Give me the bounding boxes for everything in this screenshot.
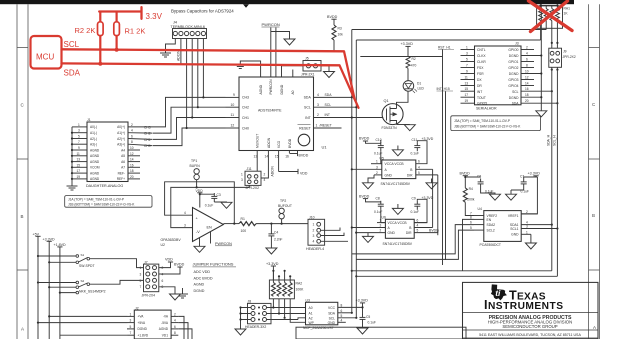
svg-text:20: 20 — [525, 99, 529, 103]
svg-text:INT_H15: INT_H15 — [437, 87, 450, 91]
red wire SCL — [62, 49, 355, 99]
svg-text:VDD: VDD — [196, 189, 204, 193]
svg-text:TP1: TP1 — [191, 159, 197, 163]
svg-text:15: 15 — [275, 155, 279, 159]
svg-text:VCC: VCC — [328, 306, 336, 310]
power arrow (Q1 gnd) — [404, 125, 415, 131]
svg-text:8: 8 — [174, 331, 176, 335]
svg-text:AGND: AGND — [259, 84, 263, 94]
wire DGND bus (J3) — [540, 4, 542, 110]
svg-text:4: 4 — [313, 240, 315, 244]
svg-text:Q1: Q1 — [384, 99, 389, 103]
svg-text:JPR-2X2: JPR-2X2 — [246, 186, 260, 190]
wire J4 pin4 to CH1 node — [191, 39, 193, 118]
wire R1 to header J10 — [256, 223, 308, 225]
svg-text:10: 10 — [231, 103, 235, 107]
svg-text:INT: INT — [477, 90, 482, 94]
wire aux horizontal — [360, 56, 442, 58]
wire R4 to VREF2 — [465, 202, 474, 215]
svg-text:2: 2 — [131, 123, 133, 127]
svg-text:R3: R3 — [338, 27, 342, 31]
bottom note box — [296, 327, 466, 339]
wire R3 to RESET net — [333, 40, 335, 51]
power arrow (U5 cap gnd) — [397, 146, 399, 150]
svg-text:SDA: SDA — [512, 102, 520, 106]
switch S1 SW-SPDT — [38, 256, 76, 262]
svg-text:ti: ti — [495, 288, 501, 298]
svg-text:A4: A4 — [121, 148, 125, 152]
svg-text:10: 10 — [130, 146, 134, 150]
wire VDD to J7 — [159, 262, 171, 268]
svg-text:CH2: CH2 — [144, 132, 151, 136]
svg-text:17: 17 — [465, 93, 469, 97]
svg-text:SCL: SCL — [512, 90, 519, 94]
svg-text:14: 14 — [525, 82, 529, 86]
svg-text:LED: LED — [418, 86, 425, 90]
ground (jumper area) — [182, 288, 184, 294]
svg-text:REF-: REF- — [118, 171, 125, 175]
svg-text:C4: C4 — [274, 230, 278, 234]
wire A0 pin — [292, 70, 294, 78]
wire C11 rail to U5 VCCB — [416, 141, 427, 164]
capacitor C4 2.2nF — [270, 224, 272, 231]
svg-text:6: 6 — [174, 325, 176, 329]
wire J4 pin6 to CH3 node — [202, 39, 204, 98]
svg-text:ADCIN: ADCIN — [271, 166, 275, 177]
wire J4 pin3 to CH0 node — [186, 39, 188, 129]
J3 right pin stubs — [521, 50, 557, 104]
wire +1.8VD bus — [59, 247, 61, 339]
svg-text:ADCIN: ADCIN — [177, 50, 181, 61]
capacitor C10 — [380, 140, 382, 143]
svg-text:2: 2 — [162, 266, 164, 270]
top title bar — [0, 0, 574, 4]
ground (J1) — [67, 186, 78, 190]
svg-text:7: 7 — [140, 285, 142, 289]
svg-text:A: A — [21, 327, 24, 332]
svg-text:CLKX: CLKX — [477, 54, 486, 58]
svg-text:BUFIN: BUFIN — [190, 164, 201, 168]
svg-text:ADC BVDD: ADC BVDD — [194, 276, 213, 280]
svg-text:AGND: AGND — [90, 154, 100, 158]
wire J11 to TP1 / opamp — [197, 185, 250, 187]
wire +5V bus — [37, 236, 39, 339]
svg-text:7: 7 — [466, 64, 468, 68]
svg-text:3.3V: 3.3V — [146, 12, 163, 21]
svg-text:16: 16 — [130, 163, 134, 167]
note box J1A/J1B — [65, 196, 152, 208]
svg-text:19: 19 — [77, 175, 81, 179]
svg-text:VCCA VCCB: VCCA VCCB — [385, 162, 405, 166]
svg-text:CH0: CH0 — [144, 144, 151, 148]
svg-text:C10: C10 — [376, 138, 382, 142]
svg-text:9: 9 — [78, 146, 80, 150]
wire CH3 route — [153, 97, 226, 127]
svg-text:A5: A5 — [121, 154, 125, 158]
svg-text:3: 3 — [526, 225, 528, 229]
svg-text:DX: DX — [477, 78, 482, 82]
red resistor R2 2K — [99, 12, 101, 65]
svg-text:1: 1 — [316, 124, 318, 128]
svg-text:DIR: DIR — [407, 174, 413, 178]
LED D1 — [407, 68, 409, 80]
svg-text:AGND: AGND — [90, 171, 100, 175]
net labels CH3-CH0 — [144, 125, 151, 148]
svg-text:7: 7 — [130, 331, 132, 335]
wire S2 to J7 pin5 — [90, 280, 144, 284]
svg-text:8: 8 — [526, 64, 528, 68]
svg-text:EN: EN — [487, 218, 492, 222]
wire opamp input inner loop — [171, 187, 197, 227]
svg-text:8: 8 — [131, 140, 133, 144]
svg-text:10k: 10k — [338, 33, 344, 37]
svg-text:GPIO1: GPIO1 — [508, 60, 518, 64]
wire C5 to ground — [362, 323, 364, 328]
svg-text:A2: A2 — [309, 316, 313, 320]
svg-text:J3A (TOP) = SAM_TSM-110-01-L-D: J3A (TOP) = SAM_TSM-110-01-L-DV-P — [454, 119, 510, 123]
svg-text:VDD: VDD — [300, 171, 308, 175]
svg-text:AGND: AGND — [90, 160, 100, 164]
svg-text:VCO: VCO — [277, 140, 281, 148]
svg-text:6: 6 — [341, 309, 343, 313]
svg-text:SCL: SCL — [329, 316, 336, 320]
svg-text:BVDD: BVDD — [359, 137, 370, 141]
svg-text:SDA: SDA — [328, 311, 336, 315]
svg-text:5: 5 — [417, 229, 419, 233]
jumper J5 JPR-2X1 — [301, 57, 321, 77]
junction dots left bus — [37, 255, 61, 294]
red X over RA1 — [529, 1, 573, 32]
svg-text:SCL: SCL — [325, 103, 332, 107]
capacitor C3 0.1uF — [211, 193, 217, 202]
svg-text:2: 2 — [380, 229, 382, 233]
power arrow (U5 gnd left) — [363, 183, 374, 189]
wire BVDD to J7 — [159, 267, 180, 274]
wire J3 left route verticals — [443, 50, 446, 266]
svg-text:MUXOUT: MUXOUT — [256, 134, 260, 148]
svg-text:+1.8VD: +1.8VD — [138, 333, 149, 337]
svg-text:FDN337N: FDN337N — [382, 126, 398, 130]
svg-text:14: 14 — [130, 158, 134, 162]
svg-text:2: 2 — [317, 113, 319, 117]
svg-text:DGND: DGND — [138, 327, 148, 331]
svg-text:100K: 100K — [296, 288, 305, 292]
svg-text:SCL1: SCL1 — [510, 227, 518, 231]
svg-text:PWRCON: PWRCON — [269, 79, 273, 95]
svg-text:3: 3 — [130, 319, 132, 323]
svg-text:DAUGHTER-ANALOG: DAUGHTER-ANALOG — [86, 184, 123, 188]
power arrow (opamp gnd) — [194, 246, 205, 252]
svg-text:+3.3VD: +3.3VD — [266, 262, 279, 266]
capacitor C8 — [378, 201, 384, 210]
capacitor C6 — [478, 179, 484, 188]
resistor array RA2 100K — [269, 280, 294, 299]
svg-text:RST_H1: RST_H1 — [438, 45, 451, 49]
power arrow (U6 gnd) — [363, 236, 374, 242]
svg-text:CH1: CH1 — [144, 138, 151, 142]
svg-text:PWRCON: PWRCON — [215, 242, 232, 246]
svg-text:J5: J5 — [305, 57, 309, 61]
svg-text:+3.3VD: +3.3VD — [356, 299, 369, 303]
svg-text:R2: R2 — [412, 57, 416, 61]
wire +3.3VD bus — [48, 241, 50, 339]
wire CH2 route — [153, 107, 226, 133]
svg-text:+3.3VD: +3.3VD — [401, 42, 414, 46]
svg-text:5: 5 — [78, 135, 80, 139]
svg-text:4: 4 — [317, 93, 319, 97]
svg-text:SCL2: SCL2 — [487, 228, 495, 232]
svg-text:DGND: DGND — [509, 72, 519, 76]
wire DGND pin to J5 — [282, 66, 304, 77]
svg-text:SN74LVC1T45DBV: SN74LVC1T45DBV — [383, 242, 413, 246]
svg-text:DR: DR — [477, 84, 482, 88]
svg-text:JPR-2X1: JPR-2X1 — [301, 73, 315, 77]
U1 right pin stubs and net labels — [314, 97, 384, 128]
svg-text:0.1uF: 0.1uF — [368, 320, 376, 324]
svg-text:1: 1 — [526, 230, 528, 234]
svg-text:GND: GND — [328, 321, 336, 325]
wire RA1 tops to bar — [541, 4, 558, 8]
svg-text:-5VA: -5VA — [161, 321, 169, 325]
svg-text:4: 4 — [184, 211, 186, 215]
wire U6 gnd — [367, 233, 369, 237]
wire CH0 route — [153, 128, 226, 146]
svg-text:C11: C11 — [412, 138, 418, 142]
wire J8 left pins — [241, 308, 252, 330]
red resistor R1 2K — [115, 12, 117, 51]
svg-text:U1: U1 — [322, 145, 328, 150]
svg-text:RESET: RESET — [299, 126, 312, 130]
connector J4 TERMBLOCK-MINI-6 — [171, 21, 207, 39]
svg-text:B: B — [592, 213, 595, 218]
wire U4 SCL2 route — [356, 230, 474, 259]
svg-text:A2(+): A2(+) — [117, 137, 125, 141]
svg-text:4: 4 — [174, 319, 176, 323]
U6 pin stubs — [352, 223, 438, 233]
wire U5 B / DIR down — [433, 169, 438, 232]
wire LED to Q1 drain — [397, 91, 409, 106]
wire opamp V- pin to ground — [199, 238, 201, 246]
junction dot INT on SDA vertical — [351, 116, 353, 118]
svg-text:AGND: AGND — [90, 177, 100, 181]
wire C9 rail to U6 VCCB — [414, 199, 427, 222]
svg-text:FSX: FSX — [477, 66, 484, 70]
svg-text:R1: R1 — [241, 217, 245, 221]
junction dots SDA/SCL at U1 — [351, 96, 353, 98]
svg-text:BVDD: BVDD — [288, 138, 292, 148]
svg-text:A3(+): A3(+) — [117, 143, 125, 147]
svg-text:VREF1: VREF1 — [508, 214, 519, 218]
svg-text:11: 11 — [465, 76, 469, 80]
svg-text:J1B (BOTTOM) = SAM SSW-110-22-: J1B (BOTTOM) = SAM SSW-110-22-F-D-VS-K — [68, 202, 135, 206]
wire C8 to U6 VCCA — [381, 210, 386, 223]
svg-text:PCA9306DCT: PCA9306DCT — [480, 243, 501, 247]
svg-text:12: 12 — [231, 124, 235, 128]
svg-text:5: 5 — [130, 325, 132, 329]
svg-text:INT: INT — [325, 113, 330, 117]
wire U4 EN route — [463, 219, 475, 270]
svg-text:C5: C5 — [366, 315, 370, 319]
svg-text:GND: GND — [385, 174, 393, 178]
svg-text:+3.3VD: +3.3VD — [528, 172, 541, 176]
svg-text:GPIO0: GPIO0 — [508, 48, 518, 52]
svg-text:AGND: AGND — [159, 327, 169, 331]
svg-text:18: 18 — [525, 93, 529, 97]
wire U4 GND — [530, 234, 532, 243]
svg-text:+1.8VD: +1.8VD — [54, 243, 66, 247]
red overlay: MCU box — [31, 36, 62, 69]
svg-text:+5VA: +5VA — [138, 321, 147, 325]
red wire SDA — [62, 63, 359, 107]
svg-text:TP2: TP2 — [280, 199, 286, 203]
svg-text:A6: A6 — [121, 160, 125, 164]
svg-text:5: 5 — [466, 58, 468, 62]
wire J7 row4 to ground — [159, 287, 175, 294]
svg-text:1: 1 — [130, 312, 132, 316]
svg-text:CNTL: CNTL — [477, 48, 486, 52]
svg-text:VDD: VDD — [165, 258, 173, 262]
power arrow (C7 gnd) — [510, 190, 512, 194]
svg-text:3: 3 — [313, 234, 315, 238]
wire +3.3VD to RA2 — [272, 266, 274, 280]
svg-text:DGND: DGND — [509, 54, 519, 58]
svg-text:4: 4 — [131, 129, 133, 133]
svg-text:5411 EAST WILLIAMS BOULEVARD,: 5411 EAST WILLIAMS BOULEVARD, TUCSON, AZ… — [479, 333, 581, 337]
U5 pin stubs — [352, 164, 438, 175]
svg-text:2: 2 — [174, 312, 176, 316]
capacitor C5 0.1uF — [360, 314, 366, 323]
svg-text:2.2nF: 2.2nF — [274, 238, 282, 242]
svg-text:C9: C9 — [412, 197, 416, 201]
svg-text:A0: A0 — [291, 90, 295, 94]
wire S1 to J7 pin1 — [90, 259, 144, 268]
wire U5 gnd — [368, 175, 374, 183]
svg-text:OPA363DBV: OPA363DBV — [161, 238, 182, 242]
U3 right pin stubs — [338, 307, 363, 322]
svg-text:12: 12 — [525, 76, 529, 80]
wire TP1 stem — [196, 180, 198, 188]
wire J8 right pins to U3 — [267, 308, 306, 320]
svg-text:A1(+): A1(+) — [117, 131, 125, 135]
wire J4 pin5 to CH2 node — [197, 39, 199, 108]
svg-text:8: 8 — [341, 303, 343, 307]
svg-text:INSTRUMENTS: INSTRUMENTS — [484, 298, 563, 312]
svg-text:5: 5 — [418, 171, 420, 175]
J8 mid pin dots — [258, 307, 260, 321]
capacitor C7 — [521, 179, 527, 188]
svg-text:1: 1 — [78, 123, 80, 127]
svg-text:AGND: AGND — [90, 148, 100, 152]
wire J4 pin2 down — [180, 39, 182, 64]
wire BVDD rail U6 — [366, 199, 381, 202]
wire VDD to C3 — [200, 193, 215, 208]
wire C4 to ground — [270, 240, 272, 249]
ground (J4) — [160, 53, 171, 57]
svg-text:+5V: +5V — [33, 232, 40, 236]
svg-text:5: 5 — [470, 226, 472, 230]
svg-text:CLKR: CLKR — [477, 60, 486, 64]
svg-text:8: 8 — [470, 215, 472, 219]
svg-text:A: A — [593, 325, 596, 330]
svg-text:9: 9 — [233, 93, 235, 97]
svg-text:C3: C3 — [217, 193, 221, 197]
U1 rotated top pin labels — [259, 79, 295, 95]
svg-text:BUFOUT: BUFOUT — [278, 204, 292, 208]
power arrow (U4 gnd) — [525, 243, 536, 249]
svg-text:4: 4 — [417, 224, 419, 228]
svg-text:R4: R4 — [469, 187, 473, 191]
svg-text:RA2: RA2 — [296, 282, 303, 286]
svg-text:BVDD: BVDD — [327, 15, 338, 19]
svg-text:R1 2K: R1 2K — [125, 27, 146, 36]
junction dots J9 — [551, 42, 559, 71]
wire BVDD rail U5 — [366, 141, 381, 143]
svg-text:D1: D1 — [417, 82, 421, 86]
svg-text:16: 16 — [525, 87, 529, 91]
svg-text:GND: GND — [388, 231, 396, 235]
switch S2 NKK_SS14MDP2 — [38, 283, 76, 293]
svg-text:BVDD: BVDD — [174, 263, 185, 267]
power arrow (C6 gnd) — [490, 194, 501, 200]
right zone letters — [592, 102, 596, 330]
svg-text:C6: C6 — [477, 174, 481, 178]
svg-text:2: 2 — [313, 229, 315, 233]
IC U1 ADS7924IRTE — [239, 77, 314, 151]
svg-text:J1: J1 — [87, 118, 91, 122]
svg-text:RA1: RA1 — [564, 7, 571, 11]
wire bottom loop SDA — [352, 271, 558, 277]
svg-text:SEMICONDUCTOR GROUP: SEMICONDUCTOR GROUP — [502, 324, 557, 329]
svg-text:6: 6 — [131, 135, 133, 139]
note box J3A/J3B — [451, 116, 541, 131]
svg-text:VD1: VD1 — [162, 333, 168, 337]
svg-text:VCCA VCCB: VCCA VCCB — [388, 221, 408, 225]
svg-text:ADCIN: ADCIN — [267, 137, 271, 148]
wire BVDD rail U4 — [465, 176, 480, 188]
svg-text:6: 6 — [162, 279, 164, 283]
power label BVDD (U1 pin16) — [289, 153, 297, 155]
svg-text:DGND: DGND — [194, 289, 205, 293]
svg-text:0.1uF: 0.1uF — [411, 210, 419, 214]
svg-text:470: 470 — [411, 64, 417, 68]
svg-text:WP: WP — [309, 321, 315, 325]
svg-text:6: 6 — [417, 219, 419, 223]
wire opamp feedback outer loop — [165, 182, 235, 224]
svg-text:14: 14 — [265, 155, 269, 159]
svg-text:SDA: SDA — [64, 69, 81, 78]
svg-text:3: 3 — [376, 165, 378, 169]
svg-text:3: 3 — [380, 224, 382, 228]
svg-text:DGND: DGND — [509, 96, 519, 100]
svg-text:16: 16 — [285, 155, 289, 159]
svg-text:JPR-2X4: JPR-2X4 — [142, 293, 156, 297]
svg-text:13: 13 — [465, 82, 469, 86]
svg-text:AGND: AGND — [194, 283, 205, 287]
svg-text:C8: C8 — [376, 197, 380, 201]
resistor R2 470 — [407, 46, 409, 56]
svg-text:15: 15 — [77, 163, 81, 167]
svg-text:6: 6 — [526, 58, 528, 62]
svg-text:GPIO4: GPIO4 — [508, 84, 518, 88]
svg-text:S1: S1 — [81, 253, 85, 257]
svg-text:A0: A0 — [309, 306, 313, 310]
svg-text:SCL: SCL — [64, 40, 80, 49]
power arrow (U5 gnd right) — [431, 179, 433, 183]
svg-text:4: 4 — [418, 165, 420, 169]
wire PWRCON pin — [271, 28, 290, 78]
op-amp U2 OPA363DBV — [193, 208, 224, 242]
svg-text:U4: U4 — [478, 207, 482, 211]
